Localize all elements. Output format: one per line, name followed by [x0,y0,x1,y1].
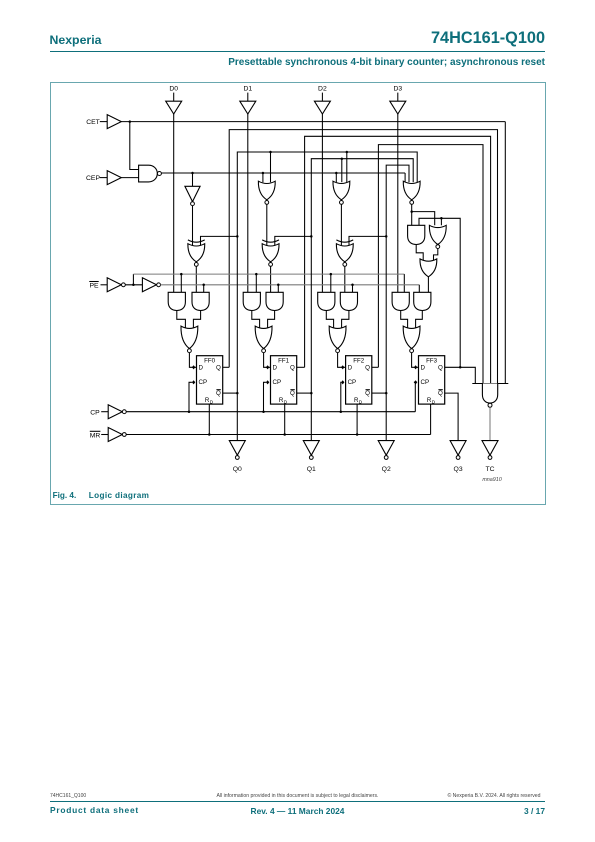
wire PE-bar stub col0 [180,274,182,292]
svg-text:Q: Q [438,390,443,397]
svg-text:Q: Q [216,390,221,397]
wire net EN-bar (NAND out) [161,171,405,174]
wire TC out [489,407,491,440]
wire enable2 to XNOR [340,204,342,245]
buffer Q3 output [450,440,466,459]
svg-text:D3: D3 [393,85,402,92]
node Q2 [382,466,391,473]
buffer Q2 output [378,440,394,459]
svg-text:CP: CP [421,379,430,386]
wire CET branch to NAND [130,121,139,169]
svg-text:mna910: mna910 [482,477,501,483]
wire enable3 junction [410,204,434,225]
wire CEP to NAND [121,176,138,178]
svg-text:FF0: FF0 [204,357,216,364]
nor-gate U121 (D input mux) [255,326,272,353]
wire D3 vertical to load AND [397,114,399,292]
wire FF1 CP [264,382,266,411]
svg-text:Q: Q [438,364,443,371]
wire Q2-bar stub to XNOR [349,235,387,246]
wire AND outputs jog col1 [252,310,275,327]
svg-text:Q1: Q1 [307,466,316,473]
buffer Q1 output [303,440,319,459]
svg-text:CEP: CEP [86,175,100,182]
wire to FF3 D [412,352,419,367]
svg-text:Q0: Q0 [233,466,242,473]
and-gate U73 (XNOR3 part) [408,225,425,244]
svg-text:Q: Q [290,364,295,371]
wire net Q1-bar feedback [311,157,413,236]
nand U3 (CET,CEP) [139,165,162,182]
footer doc id [50,793,86,799]
svg-text:MR: MR [90,432,101,439]
header logo text [50,33,102,47]
svg-text:TC: TC [485,466,494,473]
buffer D1 [240,101,256,114]
header part number [245,29,545,48]
node D2 [318,85,327,101]
node CEP [86,175,107,182]
wire to FF0 D [189,352,196,367]
wire Q0-bar stub to XNOR [201,235,239,246]
wire Q1-bar stub to XNOR [275,235,313,246]
node D1 [243,85,252,101]
xnor-gate U61 (bit1) [262,240,279,266]
inverter U9 (PE) [142,277,160,291]
footer product line [50,805,139,815]
wire FF3 RD to MR bus [430,404,432,434]
and-gate U100 (load D0) [168,292,185,310]
wire D0 vertical to load AND [173,114,175,292]
figure caption [53,491,77,500]
svg-text:Q: Q [290,390,295,397]
wire net Q2-bar feedback [386,165,409,236]
buffer D2 [314,101,330,114]
node TC [485,466,494,473]
svg-text:CET: CET [86,119,100,126]
wire NOR3 out jog [434,248,438,260]
wire net CET to TC [504,121,506,383]
buffer D0 [166,101,182,114]
wire enable1 to XNOR [266,204,268,245]
svg-text:CP: CP [90,409,100,416]
svg-text:Q: Q [216,364,221,371]
wire FF0 Q to feedback [223,366,230,368]
xnor-gate U60 (bit0) [188,240,205,266]
wire FF0 RD to MR bus [208,404,210,434]
svg-text:D: D [199,364,204,371]
or-gate U75 (XNOR3 part) [420,259,437,277]
flip-flop FF3 [414,355,445,404]
wire FF2 CP [340,382,342,411]
svg-text:D2: D2 [318,85,327,92]
flip-flop FF0 [192,355,223,404]
wire PE stub col0 [203,284,205,292]
footer rule [50,801,545,802]
and-gate U111 (count) [266,292,283,310]
flip-flop FF1 [266,355,297,404]
node CET [86,119,107,126]
wire net Q0 feedback [229,129,497,383]
nor-gate U74 (XNOR3 part) [429,225,446,248]
wire FF3 Q-bar to output [445,393,458,441]
wire net Q2 feedback [378,144,483,383]
node CP [90,409,108,416]
buffer CET U1 [107,114,121,128]
wire PE to second inverter [125,283,142,286]
wire D2 vertical to load AND [321,114,323,292]
svg-text:D: D [421,364,426,371]
wire enable0 to XNOR [192,205,194,245]
flip-flop FF2 [341,355,372,404]
inverter U14 (MR) [108,427,126,441]
wire FF2 Q to feedback [372,366,379,368]
buffer Q0 output [229,440,245,459]
node Q3 [454,466,463,473]
node Q0 [233,466,242,473]
wire FF0 Q-bar down to output [223,236,239,440]
watermark mna910 [482,477,501,483]
wire PE-bar stub col2 [330,274,332,292]
svg-text:Q: Q [365,390,370,397]
wire AND outputs jog col0 [177,310,201,327]
node D3 [393,85,402,101]
svg-text:D: D [273,364,278,371]
svg-text:FF3: FF3 [426,357,438,364]
svg-text:Q3: Q3 [454,466,463,473]
node MR [90,431,108,439]
svg-text:CP: CP [348,379,357,386]
wire D1 vertical to load AND [247,114,249,292]
nor-gate U120 (D input mux) [181,326,198,353]
wire to FF2 D [338,352,346,367]
wire AND outputs jog col2 [326,310,349,327]
and-gate U110 (count) [192,292,209,310]
svg-text:Q: Q [365,364,370,371]
figure frame [50,82,546,505]
wire XNOR0 out [195,266,197,292]
wire PE stub col2 [352,284,354,292]
wire XNOR2 out [344,266,346,292]
wire XNOR1 out [270,266,272,292]
wire FF1 Q-bar down to output [297,236,313,440]
wire FF0 CP [189,382,192,411]
svg-text:D: D [432,399,436,404]
nor-gate U52 (bit2 enable) [333,181,350,204]
svg-text:D0: D0 [169,85,178,92]
nor-gate U122 (D input mux) [329,326,346,353]
wire AND outputs jog col3 [401,310,423,327]
node D0 [169,85,178,101]
nor-gate U123 (D input mux) [403,326,420,353]
inverter U8 (PE) [107,277,125,291]
wire FF3 CP [414,382,415,411]
svg-text:CP: CP [199,379,208,386]
and-gate U112 (count) [340,292,357,310]
and-gate U113 (count) [414,292,431,310]
wire net PE bus [161,283,420,292]
wire PE-bar stub col1 [255,274,257,292]
svg-text:Q2: Q2 [382,466,391,473]
svg-text:D1: D1 [243,85,252,92]
wire AND3 out jog [416,244,423,260]
footer copyright [345,793,541,799]
xnor-gate U62 (bit2) [336,240,353,266]
and-gate U15 (TC) [472,383,508,407]
wire net PE-bar bus [133,273,404,292]
wire FF2 RD to MR bus [356,404,358,434]
header subtitle [145,57,545,68]
and-gate U103 (load D3) [392,292,409,310]
footer disclaimer [150,793,445,799]
wire net Q1 feedback [305,136,491,383]
buffer TC output [482,440,498,459]
svg-text:CP: CP [273,379,282,386]
svg-text:D: D [348,364,353,371]
inverter U4 (bit0 enable) [185,186,200,205]
node Q1 [307,466,316,473]
wire FF1 RD to MR bus [284,404,286,434]
buffer D3 [390,101,406,114]
wire FF2 Q-bar down to output [372,236,388,440]
wire net CP bus [126,410,415,413]
wire FF1 Q to feedback [297,366,305,368]
svg-text:D: D [210,399,214,404]
and-gate U102 (load D2) [318,292,335,310]
nor-gate U51 (bit1 enable) [258,181,275,204]
node PE [89,281,107,289]
svg-text:PE: PE [89,282,99,289]
svg-text:D: D [284,399,288,404]
nor-gate U53 (bit3 enable) [403,181,420,204]
wire PE stub col1 [277,284,279,292]
inverter U13 (CP) [108,404,126,418]
wire FF3 Q to TC gate [445,367,476,383]
svg-text:FF2: FF2 [353,357,365,364]
and-gate U101 (load D1) [243,292,260,310]
wire EN-bar drops to column gates [193,173,406,186]
wire net Q0-bar feedback [237,150,417,236]
wire XNOR3 out [427,276,429,292]
wire net MR bus [126,433,430,436]
header rule [50,51,546,52]
wire to FF1 D [264,352,271,367]
buffer CEP U2 [107,170,121,184]
wire CET line to TC [121,120,505,123]
wire Q3 feedback to XNOR3 [419,217,461,368]
svg-text:FF1: FF1 [278,357,290,364]
